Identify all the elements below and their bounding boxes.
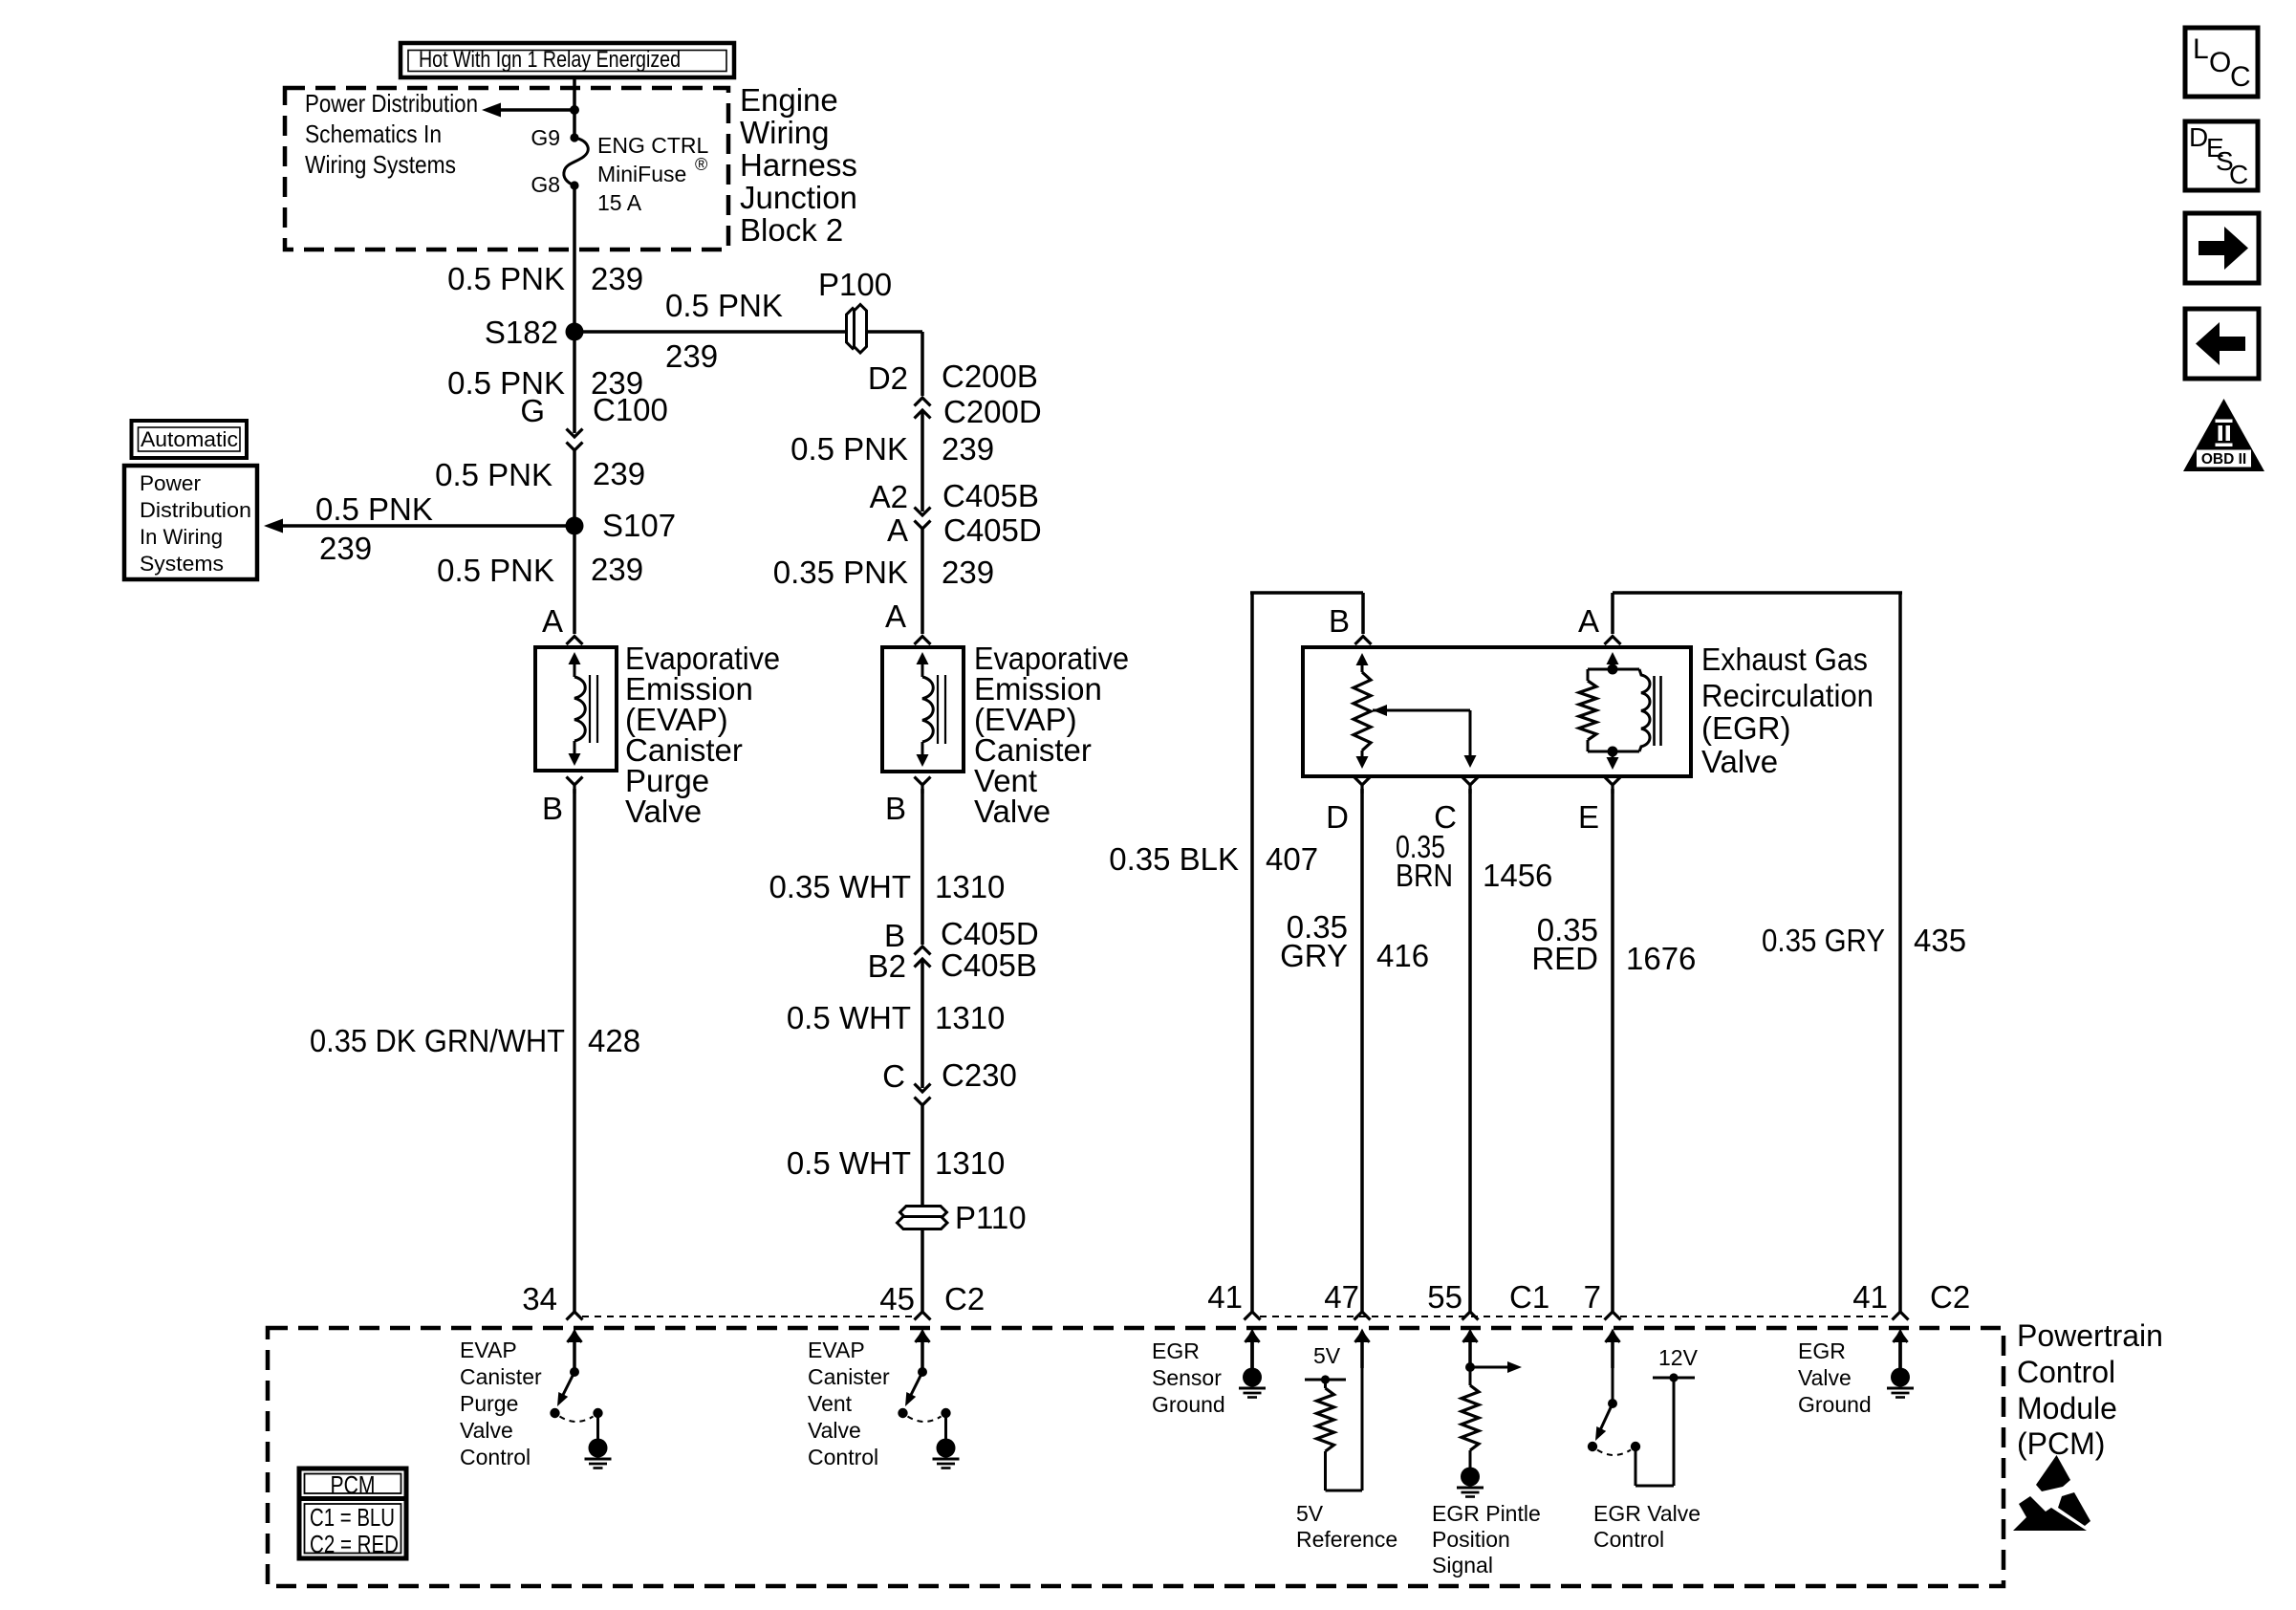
ESD sensitive device symbol	[2036, 1455, 2070, 1491]
connector pin A (vent valve)	[915, 637, 931, 645]
wire: B drop into EGR valve	[1361, 593, 1365, 634]
connector C230 (inline, facing down)	[915, 1084, 931, 1093]
PCM entry arrow at pin 41L	[1245, 1329, 1260, 1343]
wire: top-left horizontal to pin B	[1250, 591, 1363, 595]
svg-text:Systems: Systems	[140, 552, 224, 576]
svg-text:Automatic: Automatic	[141, 427, 238, 451]
node G9	[570, 133, 578, 141]
svg-text:239: 239	[591, 261, 643, 296]
svg-text:0.5 PNK: 0.5 PNK	[435, 457, 552, 492]
svg-text:Wiring: Wiring	[740, 115, 830, 150]
icon box: DESC	[2185, 121, 2258, 190]
svg-text:Recirculation: Recirculation	[1701, 678, 1874, 713]
dashed box: Engine Wiring Harness Junction Block 2	[285, 88, 728, 250]
EGR solenoid coil	[1639, 669, 1650, 751]
wire: C100 down to S107	[573, 450, 576, 526]
svg-text:C2: C2	[1930, 1279, 1970, 1315]
svg-text:45: 45	[879, 1281, 915, 1316]
node S107 splice	[566, 517, 584, 535]
wire: purge valve B down to PCM pin 34	[573, 789, 576, 1312]
svg-text:Control: Control	[808, 1445, 878, 1469]
connector half at PCM pin 34	[567, 1312, 583, 1320]
svg-text:41: 41	[1207, 1279, 1243, 1315]
svg-text:C1 = BLU: C1 = BLU	[310, 1503, 395, 1532]
connector C100 (inline, facing down)	[567, 429, 583, 438]
svg-text:B2: B2	[868, 948, 906, 984]
dashed box: Powertrain Control Module (PCM)	[268, 1328, 2004, 1586]
wire: E down to PCM pin 7	[1611, 789, 1614, 1312]
connector half at PCM pin 45	[915, 1312, 931, 1320]
svg-text:EVAP: EVAP	[460, 1338, 517, 1362]
svg-text:A2: A2	[870, 479, 908, 514]
svg-text:Power Distribution: Power Distribution	[305, 89, 478, 118]
svg-text:C230: C230	[942, 1057, 1017, 1093]
component box: EVAP canister vent valve	[882, 647, 964, 772]
svg-text:L: L	[2193, 33, 2209, 65]
svg-text:MiniFuse: MiniFuse	[597, 162, 686, 186]
wire: arrow to Power Distribution Schematics	[493, 108, 574, 112]
svg-text:15 A: 15 A	[597, 190, 642, 215]
svg-text:0.35 GRY: 0.35 GRY	[1762, 923, 1885, 958]
solenoid coil (vent valve)	[917, 652, 929, 664]
svg-text:407: 407	[1266, 841, 1318, 877]
label box: Power Distribution In Wiring Systems	[124, 466, 257, 579]
svg-text:BRN: BRN	[1396, 858, 1453, 893]
svg-text:12V: 12V	[1658, 1345, 1699, 1370]
svg-text:1310: 1310	[935, 1145, 1005, 1181]
node: EGR solenoid top	[1608, 664, 1618, 675]
svg-text:0.5 PNK: 0.5 PNK	[437, 553, 554, 588]
svg-text:C: C	[2230, 61, 2251, 93]
svg-text:0.5 PNK: 0.5 PNK	[791, 431, 908, 467]
PCM entry arrow at pin 41R	[1894, 1329, 1908, 1343]
svg-text:PCM: PCM	[331, 1470, 376, 1499]
svg-text:G8: G8	[531, 172, 560, 197]
svg-text:In Wiring: In Wiring	[140, 525, 223, 549]
svg-text:Canister: Canister	[808, 1364, 890, 1389]
svg-text:C2 = RED: C2 = RED	[310, 1530, 399, 1558]
svg-text:0.5 WHT: 0.5 WHT	[787, 1000, 911, 1035]
svg-text:EGR: EGR	[1152, 1338, 1200, 1363]
connector pin D (EGR valve)	[1354, 777, 1371, 786]
ground (EGR valve)	[1898, 1340, 1902, 1369]
svg-text:OBD II: OBD II	[2201, 451, 2246, 468]
svg-text:C200B: C200B	[942, 359, 1038, 394]
wire: S182 to P100	[574, 330, 847, 334]
potentiometer wiper arrow	[1373, 705, 1387, 716]
wire: fuse G8 down to S182	[573, 185, 576, 332]
connector half at PCM pin 47	[1354, 1312, 1371, 1320]
svg-text:239: 239	[593, 456, 645, 491]
ground (vent driver)	[937, 1439, 956, 1458]
svg-text:Control: Control	[1593, 1527, 1664, 1552]
wire: C230 down to P110	[921, 1105, 924, 1207]
EGR solenoid top rail	[1588, 668, 1639, 671]
svg-text:0.35 PNK: 0.35 PNK	[773, 555, 908, 590]
svg-text:0.5 PNK: 0.5 PNK	[665, 288, 783, 323]
connector pin B (vent valve)	[915, 777, 931, 786]
svg-text:34: 34	[522, 1281, 557, 1316]
connector half at PCM pin 41L	[1245, 1312, 1261, 1320]
node: EGR solenoid bottom	[1608, 747, 1618, 757]
svg-text:D: D	[1326, 799, 1349, 835]
svg-text:41: 41	[1852, 1279, 1888, 1315]
svg-text:C2: C2	[944, 1281, 985, 1316]
svg-text:239: 239	[942, 555, 994, 590]
wire: S107 down to EVAP purge valve	[573, 526, 576, 634]
svg-text:55: 55	[1427, 1279, 1462, 1315]
EGR solenoid centerline	[1607, 652, 1619, 664]
svg-text:P100: P100	[818, 267, 892, 302]
svg-text:®: ®	[695, 155, 707, 174]
svg-text:C405D: C405D	[941, 916, 1039, 951]
svg-text:Control: Control	[460, 1445, 531, 1469]
svg-text:EGR: EGR	[1798, 1338, 1846, 1363]
svg-text:C405D: C405D	[943, 512, 1042, 548]
wire: D down to PCM pin 47	[1360, 789, 1364, 1312]
legend box: PCM connector colors	[299, 1469, 406, 1558]
svg-text:C1: C1	[1509, 1279, 1549, 1315]
fuse ENG CTRL MiniFuse 15 A	[564, 138, 588, 185]
PCM entry arrow at pin 55	[1463, 1329, 1478, 1343]
wire: P110 down to PCM pin 45	[921, 1230, 924, 1312]
svg-text:D2: D2	[868, 360, 908, 396]
wire: EGR valve-ground leg riser (pin 41 C2)	[1898, 593, 1902, 1312]
connector pin A (EGR valve)	[1605, 637, 1621, 645]
svg-text:Valve: Valve	[1701, 744, 1778, 779]
svg-text:A: A	[885, 598, 906, 634]
svg-text:Valve: Valve	[460, 1418, 513, 1443]
svg-text:Valve: Valve	[1798, 1365, 1852, 1390]
svg-text:Hot With Ign 1 Relay Energized: Hot With Ign 1 Relay Energized	[419, 47, 681, 73]
ground (purge driver)	[589, 1439, 608, 1458]
EGR valve control switch	[1612, 1340, 1614, 1403]
icon box: LOC	[2185, 28, 2258, 97]
svg-text:EVAP: EVAP	[808, 1338, 865, 1362]
svg-text:EGR Valve: EGR Valve	[1593, 1501, 1700, 1526]
svg-text:Position: Position	[1432, 1527, 1510, 1552]
connector C405D/C405B (return, facing up)	[915, 946, 931, 955]
svg-text:416: 416	[1376, 938, 1429, 973]
thin dashed connector line (pins 41-7)	[1260, 1316, 1605, 1317]
node: junction at fuse feed	[570, 105, 579, 115]
svg-text:Valve: Valve	[625, 794, 702, 829]
svg-text:0.35 WHT: 0.35 WHT	[769, 869, 911, 904]
EVAP vent driver switch	[918, 1367, 927, 1377]
svg-text:ENG CTRL: ENG CTRL	[597, 133, 709, 158]
PCM entry arrow at pin 45	[916, 1329, 930, 1343]
wire: S182 down to C100	[573, 332, 576, 433]
svg-text:A: A	[887, 512, 908, 548]
connector pin E (EGR valve)	[1605, 777, 1621, 786]
wire: C405B down to C230	[921, 959, 924, 1088]
svg-text:Engine: Engine	[740, 82, 838, 118]
svg-text:Purge: Purge	[460, 1391, 518, 1416]
PCM entry arrow at pin 7	[1606, 1329, 1620, 1343]
svg-text:Valve: Valve	[808, 1418, 861, 1443]
svg-text:Junction: Junction	[740, 180, 857, 215]
connector pin A (purge valve)	[567, 637, 583, 645]
svg-text:(PCM): (PCM)	[2017, 1426, 2105, 1461]
svg-text:0.5 PNK: 0.5 PNK	[315, 491, 433, 527]
connector pin B (EGR valve)	[1355, 637, 1372, 645]
svg-text:G9: G9	[531, 125, 560, 150]
svg-text:B: B	[542, 791, 563, 826]
svg-text:239: 239	[591, 552, 643, 587]
12V supply connection	[1635, 1451, 1637, 1486]
svg-text:Block 2: Block 2	[740, 212, 843, 248]
svg-text:Powertrain: Powertrain	[2017, 1318, 2163, 1353]
svg-text:Canister: Canister	[460, 1364, 542, 1389]
PCM entry arrow at pin 34	[568, 1329, 582, 1343]
svg-text:EGR Pintle: EGR Pintle	[1432, 1501, 1541, 1526]
svg-text:1310: 1310	[935, 869, 1005, 904]
svg-text:1676: 1676	[1626, 941, 1696, 976]
component box: EGR valve	[1303, 647, 1691, 776]
connector pin C (EGR valve)	[1462, 777, 1479, 786]
wire: vent valve B down to C405D	[921, 789, 924, 945]
thin dashed connector line (pins 34-45)	[582, 1316, 915, 1317]
EGR pintle position signal circuit	[1469, 1340, 1472, 1385]
svg-text:1310: 1310	[935, 1000, 1005, 1035]
svg-text:0.5 WHT: 0.5 WHT	[787, 1145, 911, 1181]
connector half at PCM pin 41R	[1893, 1312, 1909, 1320]
svg-text:(EGR): (EGR)	[1701, 710, 1791, 746]
svg-text:0.35 DK GRN/WHT: 0.35 DK GRN/WHT	[310, 1023, 565, 1058]
ground (EGR sensor)	[1250, 1340, 1254, 1369]
svg-text:P110: P110	[955, 1200, 1027, 1235]
svg-text:B: B	[1329, 603, 1350, 639]
EVAP purge driver switch	[570, 1367, 579, 1377]
thin dashed connector line (pins 7-41)	[1620, 1316, 1893, 1317]
label box: Automatic	[132, 421, 248, 458]
wire: P100 to corner then down	[866, 330, 922, 334]
wire: C down to PCM pin 55	[1468, 789, 1472, 1312]
svg-text:A: A	[542, 603, 563, 639]
svg-text:O: O	[2209, 47, 2231, 78]
svg-text:239: 239	[665, 338, 718, 374]
solenoid coil (purge valve)	[569, 652, 581, 664]
svg-text:Reference: Reference	[1296, 1527, 1397, 1552]
wire: A drop into EGR valve	[1611, 593, 1614, 634]
svg-text:C405B: C405B	[942, 478, 1039, 513]
svg-text:GRY: GRY	[1280, 938, 1348, 973]
svg-text:C: C	[882, 1058, 905, 1094]
connector half at PCM pin 7	[1605, 1312, 1621, 1320]
connector pin B (purge valve)	[567, 777, 583, 786]
svg-text:Vent: Vent	[808, 1391, 853, 1416]
svg-text:Signal: Signal	[1432, 1553, 1493, 1577]
wire: C405D down to vent valve	[921, 529, 924, 634]
ground (EGR pintle)	[1461, 1468, 1480, 1487]
icon box: back arrow	[2185, 309, 2259, 379]
svg-text:C: C	[2229, 160, 2248, 189]
connector half at PCM pin 55	[1462, 1312, 1479, 1320]
svg-text:239: 239	[591, 365, 643, 401]
svg-text:Sensor: Sensor	[1152, 1365, 1222, 1390]
node S182 splice	[566, 323, 584, 341]
svg-text:S182: S182	[485, 315, 558, 350]
svg-text:Schematics In: Schematics In	[305, 120, 442, 148]
EGR solenoid resistor	[1587, 669, 1590, 681]
svg-text:0.35 BLK: 0.35 BLK	[1109, 841, 1239, 877]
svg-text:C200D: C200D	[943, 394, 1042, 429]
svg-text:0.5 PNK: 0.5 PNK	[447, 365, 565, 401]
label box: Hot With Ign 1 Relay Energized	[401, 43, 734, 77]
svg-text:7: 7	[1584, 1279, 1601, 1315]
svg-text:Wiring Systems: Wiring Systems	[305, 150, 456, 179]
PCM entry arrow at pin 47	[1355, 1329, 1370, 1343]
svg-text:A: A	[1578, 603, 1599, 639]
svg-text:Ground: Ground	[1798, 1392, 1872, 1417]
wire: top-right horizontal from pin A	[1613, 591, 1902, 595]
svg-text:47: 47	[1324, 1279, 1359, 1315]
svg-text:S107: S107	[602, 508, 676, 543]
svg-text:Ground: Ground	[1152, 1392, 1225, 1417]
svg-text:Control: Control	[2017, 1355, 2115, 1389]
svg-text:B: B	[885, 791, 906, 826]
svg-text:Valve: Valve	[974, 794, 1051, 829]
svg-text:Power: Power	[140, 471, 202, 495]
svg-text:0.5 PNK: 0.5 PNK	[447, 261, 565, 296]
svg-text:C405B: C405B	[941, 947, 1037, 983]
wire: arrow from S107 to Power Distribution box	[277, 524, 574, 528]
svg-text:428: 428	[588, 1023, 640, 1058]
svg-text:Distribution: Distribution	[140, 498, 251, 522]
svg-text:Exhaust Gas: Exhaust Gas	[1701, 642, 1868, 677]
icon: OBD II triangle	[2183, 399, 2264, 471]
5V reference resistor circuit	[1361, 1340, 1364, 1490]
potentiometer (EGR pintle position sensor)	[1356, 653, 1369, 665]
connector P100 grommet	[847, 309, 859, 349]
component box: EVAP canister purge valve	[535, 647, 617, 771]
svg-text:Module: Module	[2017, 1391, 2117, 1425]
node G8	[570, 181, 578, 189]
wire: C200D down to C405B	[921, 410, 924, 511]
wire: from Hot box to fuse	[573, 79, 576, 138]
svg-text:1456: 1456	[1483, 858, 1552, 893]
connector C200B/C200D (inline, facing up)	[915, 398, 931, 406]
svg-text:5V: 5V	[1313, 1343, 1341, 1368]
connector P110 grommet	[900, 1207, 947, 1219]
svg-text:E: E	[1578, 799, 1599, 835]
svg-text:Harness: Harness	[740, 147, 857, 183]
wire: EGR sensor-ground leg (pin 41 left riser)	[1250, 593, 1254, 1312]
icon box: forward arrow	[2185, 213, 2259, 283]
EGR solenoid bottom rail	[1588, 751, 1639, 753]
svg-text:435: 435	[1914, 923, 1966, 958]
svg-text:239: 239	[942, 431, 994, 467]
svg-text:5V: 5V	[1296, 1501, 1324, 1526]
connector C405B/C405D (inline, facing down)	[915, 508, 931, 516]
svg-text:239: 239	[319, 531, 372, 566]
svg-text:RED: RED	[1531, 941, 1598, 976]
